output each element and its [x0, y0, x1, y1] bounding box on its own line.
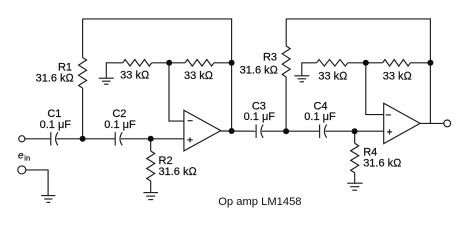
svg-text:33 kΩ: 33 kΩ	[184, 70, 214, 82]
svg-text:e: e	[18, 151, 24, 162]
svg-text:Op amp LM1458: Op amp LM1458	[218, 196, 301, 208]
svg-text:31.6 kΩ: 31.6 kΩ	[159, 166, 198, 178]
svg-text:0.1 μF: 0.1 μF	[304, 111, 336, 123]
svg-text:31.6 kΩ: 31.6 kΩ	[240, 64, 279, 76]
svg-text:33 kΩ: 33 kΩ	[383, 70, 413, 82]
svg-text:0.1 μF: 0.1 μF	[244, 111, 276, 123]
svg-text:33 kΩ: 33 kΩ	[120, 70, 150, 82]
svg-text:33 kΩ: 33 kΩ	[318, 70, 348, 82]
svg-text:31.6 kΩ: 31.6 kΩ	[36, 73, 75, 85]
svg-text:0.1 μF: 0.1 μF	[40, 119, 72, 131]
svg-text:in: in	[24, 154, 30, 163]
svg-text:31.6 kΩ: 31.6 kΩ	[363, 158, 402, 170]
svg-text:0.1 μF: 0.1 μF	[104, 119, 136, 131]
svg-text:R3: R3	[263, 51, 277, 63]
